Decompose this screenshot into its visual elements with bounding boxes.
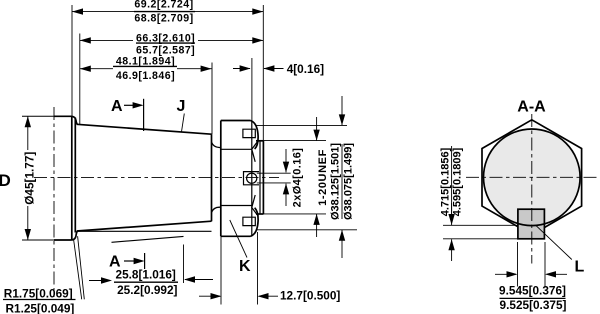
svg-text:9.545[0.376]: 9.545[0.376] xyxy=(499,283,566,297)
svg-text:46.9[1.846]: 46.9[1.846] xyxy=(116,70,175,82)
nut bottom edge xyxy=(221,235,251,237)
nut mouth top line xyxy=(221,148,252,150)
svg-text:69.2[2.724]: 69.2[2.724] xyxy=(134,0,193,10)
svg-text:68.8[2.709]: 68.8[2.709] xyxy=(134,12,193,24)
arrow 48.1 left xyxy=(80,66,91,72)
arrow Ø45 bottom xyxy=(25,229,31,240)
R leader line 2 xyxy=(78,236,85,299)
vertical phantom line at collet back face xyxy=(53,107,55,297)
svg-text:4[0.16]: 4[0.16] xyxy=(287,62,324,76)
svg-text:A: A xyxy=(111,98,123,115)
section A arrow top xyxy=(124,104,135,106)
extension line for 4 dimension left side xyxy=(251,58,253,121)
keyway block xyxy=(518,209,545,239)
section A tick bottom xyxy=(144,253,146,269)
arrow 66.3 left xyxy=(80,37,91,43)
arrow 1-20UNEF bottom xyxy=(313,214,319,225)
arrow 9.545 right xyxy=(545,271,556,277)
arrow section A bottom xyxy=(134,258,145,264)
horizontal centerline of side view xyxy=(34,176,279,178)
arrow 2xØ4 bottom xyxy=(283,183,289,194)
arrow 12.7 right xyxy=(258,293,269,299)
keyway width extension line left xyxy=(517,242,519,287)
nut front face xyxy=(251,121,253,237)
svg-text:1-20UNEF: 1-20UNEF xyxy=(317,149,329,206)
svg-text:A: A xyxy=(109,254,121,271)
svg-text:66.3[2.610]: 66.3[2.610] xyxy=(136,33,195,45)
arrow 25.8 left-pointing xyxy=(184,276,195,282)
bottom edge of back land + Ø45 bottom extension line xyxy=(22,239,72,241)
arrow Ø45 top xyxy=(25,116,31,127)
fraction bar 25.8/25.2 xyxy=(114,281,178,283)
arrow 25.8 right-pointing xyxy=(101,277,112,283)
arrow Ø38 top xyxy=(339,114,345,125)
dimension Ø38 fraction bar and arrow lines xyxy=(341,96,343,258)
spanner slot bottom xyxy=(243,217,255,225)
section A tick top xyxy=(143,99,145,131)
svg-text:R1.25[0.049]: R1.25[0.049] xyxy=(6,301,75,314)
spanner slot top xyxy=(243,129,255,137)
nut left edge xyxy=(220,121,222,237)
fraction bar 9.545/9.525 xyxy=(500,297,566,299)
extension line for 69.2 dimension xyxy=(71,5,73,116)
nut top edge xyxy=(221,120,251,122)
svg-text:L: L xyxy=(575,259,585,276)
hole top line / 2xØ4 extension xyxy=(257,172,291,174)
collet protruding end face xyxy=(262,141,264,214)
svg-text:J: J xyxy=(177,98,186,115)
svg-text:4.595[0.1809]: 4.595[0.1809] xyxy=(452,147,464,216)
taper top edge xyxy=(77,124,212,134)
svg-text:2xØ4[0.16]: 2xØ4[0.16] xyxy=(292,148,304,208)
fraction bar 69.2/68.8 xyxy=(134,11,195,13)
flange bottom corner fillet R1.75 xyxy=(72,231,77,240)
fraction bar 66.3/65.7 xyxy=(136,42,195,44)
arrow 12.7 left xyxy=(211,293,222,299)
flange front face xyxy=(74,118,76,233)
svg-text:R1.75[0.069]: R1.75[0.069] xyxy=(4,286,73,300)
arrow Ø38 bottom xyxy=(339,230,345,241)
extension line for 12.7 dimension left side xyxy=(220,236,222,304)
neck groove bottom fillet xyxy=(212,207,221,212)
collet protruding end top edge xyxy=(256,140,263,142)
extension line for 12.7 right side xyxy=(257,232,259,305)
arrow 1-20UNEF top xyxy=(313,130,319,141)
collet circle outline xyxy=(484,129,581,226)
dimension 4[0.16] right arrow line xyxy=(264,68,284,70)
dimension 9.545 left arrow line xyxy=(495,273,516,275)
flange back face xyxy=(71,116,73,240)
arrow 66.3 right xyxy=(252,37,263,43)
dimension 25.8/25.2 right-pointing arrow line xyxy=(89,280,110,282)
neck groove top fillet xyxy=(212,142,221,147)
dimension line 69.2/68.8 xyxy=(72,11,263,13)
extension line for 25.8 right side xyxy=(183,245,185,284)
section A-A horizontal centerline xyxy=(466,176,597,178)
svg-text:25.8[1.016]: 25.8[1.016] xyxy=(116,268,176,282)
dimension 12.7 right arrow line xyxy=(259,295,278,297)
arrow section A top xyxy=(133,102,144,108)
L leader xyxy=(536,226,572,260)
svg-text:12.7[0.500]: 12.7[0.500] xyxy=(280,289,340,303)
arrow 4 right xyxy=(263,65,274,71)
dimension 9.545 right arrow line xyxy=(547,273,568,275)
keyway depth extension line top xyxy=(443,224,518,226)
body end edge xyxy=(211,134,213,221)
keyway width extension line right xyxy=(544,242,546,287)
nut mouth bottom line xyxy=(221,205,252,207)
spanner hole slot xyxy=(244,172,260,185)
svg-text:Ø45[1.77]: Ø45[1.77] xyxy=(23,152,37,205)
arrow keyway depth top xyxy=(448,214,454,225)
svg-text:48.1[1.894]: 48.1[1.894] xyxy=(116,56,175,68)
svg-text:K: K xyxy=(239,258,251,275)
extension line for 48.1 dimension right side xyxy=(211,63,213,135)
dimension 4[0.16] left arrow line xyxy=(233,68,250,70)
svg-text:25.2[0.992]: 25.2[0.992] xyxy=(117,283,177,297)
fraction bar 48.1/46.9 xyxy=(113,65,177,67)
nut face chamfer wedge top xyxy=(252,141,258,162)
arrow 4 left xyxy=(240,65,251,71)
extension line for 69.2 / 66.3 / 4 dimensions right side xyxy=(262,5,264,141)
keyway depth arrow lines xyxy=(451,203,453,261)
section A arrow bottom xyxy=(124,260,136,262)
top edge of back land + Ø45 top extension line xyxy=(22,115,72,117)
dimension 12.7 left arrow line xyxy=(199,295,220,297)
J leader xyxy=(182,114,185,132)
dimension 1-20UNEF arrow lines xyxy=(316,117,318,237)
svg-text:4.715[0.1856]: 4.715[0.1856] xyxy=(439,147,451,216)
extension line for 66.3 / 48.1 dimensions xyxy=(79,34,81,125)
svg-text:Ø38.075[1.499]: Ø38.075[1.499] xyxy=(342,143,354,220)
R1.75/R1.25 fraction bar xyxy=(3,299,76,301)
collet slot silhouette line xyxy=(77,230,211,232)
collet circle fill xyxy=(484,129,581,226)
dimension line 66.3/65.7 xyxy=(80,39,263,41)
section A-A vertical centerline xyxy=(531,114,533,264)
Ø38 top extension line xyxy=(255,124,347,126)
svg-text:9.525[0.375]: 9.525[0.375] xyxy=(500,298,567,312)
spanner hole circle xyxy=(247,173,257,183)
nut face chamfer wedge bottom xyxy=(252,195,258,216)
1-20UNEF bottom extension line xyxy=(262,213,326,215)
dimension 2xØ4 arrow lines xyxy=(285,149,287,206)
taper bottom edge xyxy=(77,221,212,231)
arrow 69.2 right xyxy=(252,8,263,14)
flange top corner fillet R1.75 xyxy=(72,116,77,124)
dimension line Ø45 xyxy=(27,116,29,240)
Ø38 bottom extension line xyxy=(257,229,357,231)
arrow 69.2 left xyxy=(72,8,83,14)
arrow keyway depth bottom xyxy=(448,239,454,250)
arrow 9.545 left xyxy=(507,271,518,277)
svg-text:A-A: A-A xyxy=(517,99,546,116)
svg-text:Ø38.125[1.501]: Ø38.125[1.501] xyxy=(330,143,342,220)
svg-text:D: D xyxy=(0,171,11,190)
collet protruding end bottom edge xyxy=(256,213,263,215)
nut hex bulge bottom arc xyxy=(251,208,259,237)
1-20UNEF top extension line xyxy=(263,140,326,142)
arrow 2xØ4 top xyxy=(283,162,289,173)
dimension line 48.1/46.9 xyxy=(80,68,212,70)
dimension 25.8/25.2 left-pointing arrow line xyxy=(185,279,213,281)
hole bottom line / 2xØ4 extension xyxy=(257,182,291,184)
R leader line 1 xyxy=(74,240,82,300)
clamping range line under body xyxy=(112,236,184,242)
keyway depth extension line bottom xyxy=(443,238,521,240)
K leader xyxy=(230,220,247,258)
nut hex bulge top arc xyxy=(251,121,259,150)
arrow 48.1 right xyxy=(201,66,212,72)
keyway depth fraction bar xyxy=(451,146,453,218)
hexagon of section A-A xyxy=(482,120,582,228)
collet end chamfer line xyxy=(259,141,261,214)
